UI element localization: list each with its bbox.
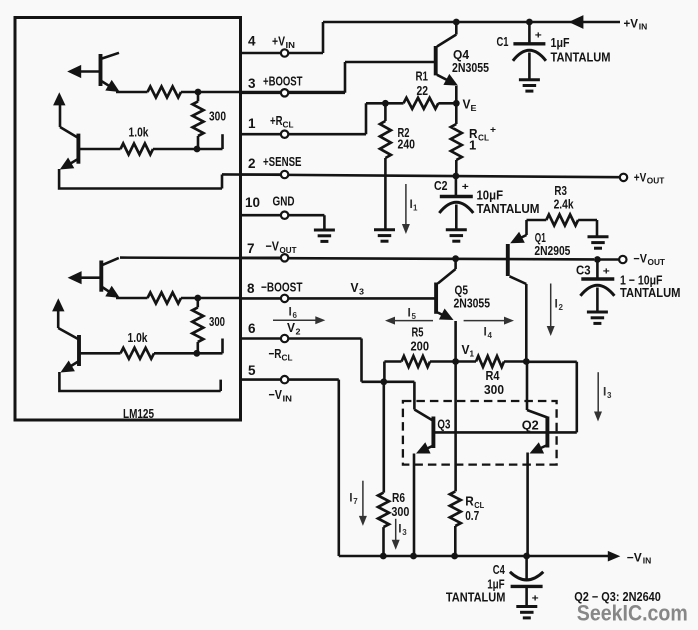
label Q2-Q3 2N2640: [574, 590, 661, 604]
resistor R4 300: [456, 356, 527, 367]
arrow T1 emitter tip: [67, 65, 81, 78]
label I_2: [555, 297, 564, 313]
svg-text:2N3055: 2N3055: [454, 295, 491, 310]
wire Q4 collector: [437, 22, 456, 47]
node dot rail R6: [380, 553, 387, 560]
current arrow I5: [385, 317, 433, 325]
label 1-10uF C3: [620, 273, 663, 288]
node dot C2: [453, 173, 460, 180]
wire Q5 collector: [438, 259, 456, 284]
svg-text:CL: CL: [282, 353, 293, 363]
svg-text:−V: −V: [627, 550, 642, 564]
svg-text:GND: GND: [273, 194, 295, 209]
wire emitter2 to resistor (bottom): [116, 297, 148, 300]
svg-text:3: 3: [248, 76, 256, 91]
node dot C1 on rail: [526, 19, 533, 26]
label 240: [398, 137, 416, 152]
svg-text:LM125: LM125: [123, 406, 154, 421]
transistor internal T1 base bar: [99, 54, 103, 86]
svg-text:1: 1: [469, 138, 476, 153]
wire T4 collector diagonal: [58, 310, 79, 340]
label +SENSE pin2: [263, 154, 302, 169]
label +BOOST pin3: [263, 74, 303, 89]
bottom -V_IN rail: [339, 555, 609, 558]
svg-text:SeekIC.com: SeekIC.com: [577, 601, 688, 626]
pin number 6: [248, 321, 256, 336]
svg-text:CL: CL: [478, 133, 489, 143]
capacitor C3 plus plate: [581, 277, 614, 280]
label R4: [486, 368, 501, 383]
wire C3 to ground: [596, 288, 599, 312]
label 22: [417, 83, 429, 98]
wire pin 10 stub: [241, 214, 281, 217]
svg-text:I: I: [398, 522, 401, 536]
wire Q4 emitter to VE: [455, 86, 458, 103]
label TANTALUM C3: [620, 285, 681, 300]
label R5: [412, 324, 424, 339]
svg-text:1: 1: [248, 116, 256, 131]
svg-text:3: 3: [402, 528, 407, 537]
wire Q3 collector path: [384, 382, 434, 421]
current arrow I1: [402, 184, 410, 234]
label I_3 right: [603, 385, 612, 401]
wire +SENSE to +V_OUT row: [222, 174, 619, 177]
label R_CL bottom: [465, 494, 484, 511]
svg-text:V: V: [351, 280, 359, 295]
label R_CL+: [469, 125, 496, 143]
ground C4: [516, 607, 537, 618]
svg-text:TANTALUM: TANTALUM: [620, 285, 681, 300]
label LM125: [123, 406, 154, 421]
svg-text:Q2: Q2: [522, 417, 539, 432]
svg-text:R1: R1: [416, 69, 429, 84]
svg-text:2N3055: 2N3055: [452, 60, 489, 75]
label I_6: [289, 305, 298, 321]
label +V_OUT terminal: [634, 170, 665, 185]
svg-text:2: 2: [296, 327, 301, 337]
svg-text:3: 3: [607, 391, 612, 400]
arrow Q3 emitter tip: [416, 442, 431, 453]
svg-text:+R: +R: [270, 113, 283, 128]
ground R3: [588, 237, 609, 248]
pin 3 circle: [281, 89, 288, 96]
svg-text:+V: +V: [272, 34, 285, 49]
pin number 3: [248, 76, 256, 91]
current arrow I7: [359, 481, 367, 526]
svg-text:I: I: [349, 491, 352, 505]
label 1uF C1: [551, 35, 570, 50]
LM125 IC body box: [15, 18, 241, 421]
wire Q1 emitter diagonal: [513, 220, 527, 242]
resistor 300 (top section): [193, 92, 204, 149]
label 1.0k bottom: [128, 330, 149, 345]
svg-text:+: +: [532, 594, 539, 605]
svg-text:+SENSE: +SENSE: [263, 154, 302, 169]
pin 4 circle: [281, 49, 288, 56]
wire Q3 emitter down to rail: [413, 454, 416, 557]
wire R4 node to mirror bases: [433, 362, 576, 433]
label -V_OUT pin7: [266, 239, 298, 256]
wire T2 collector diagonal: [60, 104, 78, 138]
label 300 bottom: [209, 314, 225, 329]
arrow Q5 emitter tip: [439, 309, 454, 321]
svg-text:3: 3: [359, 287, 364, 297]
svg-text:C4: C4: [493, 562, 506, 577]
svg-text:I: I: [555, 297, 558, 311]
resistor R3 2.4k: [527, 215, 598, 236]
wire zigzag to pin3 row: [181, 91, 345, 94]
transistor Q1 base bar: [506, 244, 510, 276]
watermark SeekIC.com: [577, 601, 688, 626]
capacitor C4 plus plate: [511, 585, 543, 588]
label C4 plus: [532, 594, 539, 605]
wire zigzag to pin8 row: [181, 297, 242, 300]
arrow T3 emitter2 tip: [105, 286, 120, 298]
pin number 10: [245, 195, 260, 210]
capacitor C2 curved plate: [439, 202, 473, 213]
pin 6 circle: [281, 335, 288, 342]
capacitor C2 plus plate: [440, 195, 473, 198]
wire T1 collector to pin4 row: [101, 53, 120, 59]
svg-text:+BOOST: +BOOST: [263, 74, 303, 89]
wire T2 emitter to sense row: [59, 169, 222, 189]
wire dot to pin6 riser: [221, 339, 224, 354]
svg-text:1.0k: 1.0k: [129, 125, 150, 140]
resistor 1.0k (bottom section): [79, 348, 223, 359]
svg-text:6: 6: [248, 321, 256, 336]
svg-text:22: 22: [417, 83, 429, 98]
svg-text:Q3: Q3: [437, 416, 450, 431]
label Q1: [535, 230, 546, 245]
svg-text:2.4k: 2.4k: [554, 197, 575, 212]
label +R_CL pin1: [270, 113, 294, 130]
wire pin8 -BOOST to Q5 base: [289, 297, 436, 300]
wire T3 emitter2 diagonal: [101, 287, 113, 295]
label C2: [434, 178, 448, 193]
pin 2 circle: [281, 171, 288, 178]
ground C2: [446, 230, 467, 241]
label V_2 node: [287, 320, 301, 337]
label R6: [392, 490, 405, 505]
wire C4 to ground: [525, 586, 528, 605]
node dot rail Q3: [410, 553, 417, 560]
svg-text:R5: R5: [412, 324, 424, 339]
terminal -V_OUT circle: [619, 256, 626, 263]
wire pin 3 stub: [241, 92, 281, 95]
label 1.0k top: [129, 125, 150, 140]
wire pin10 to ground: [289, 215, 325, 229]
arrow T4 emitter tip: [60, 361, 75, 373]
wire pin 8 stub: [241, 297, 281, 300]
svg-text:2N2905: 2N2905: [534, 243, 570, 258]
svg-text:300: 300: [209, 314, 225, 329]
label 2N3055 Q4: [452, 60, 489, 75]
node dot C3: [594, 256, 601, 263]
wire T2 emitter diagonal: [68, 159, 78, 165]
node V_1 dot: [452, 358, 459, 365]
resistor R1 22: [385, 98, 456, 109]
wire pin1 to R1 node: [289, 103, 386, 134]
svg-text:IN: IN: [643, 557, 652, 566]
label +V_IN terminal: [624, 16, 648, 31]
svg-text:I: I: [289, 305, 292, 319]
svg-text:+: +: [603, 266, 610, 277]
svg-text:1μF: 1μF: [551, 35, 570, 50]
label -V_IN terminal: [627, 550, 652, 565]
dashed box Q2-Q3 matched pair: [403, 401, 557, 465]
arrow T2 emitter tip: [60, 158, 75, 170]
label V_3: [351, 280, 365, 297]
label R3: [554, 183, 567, 198]
svg-text:1: 1: [470, 348, 475, 358]
label 1uF C4: [487, 577, 505, 592]
svg-text:300: 300: [484, 382, 504, 397]
svg-text:−R: −R: [269, 346, 282, 361]
transistor internal T4 base bar: [77, 335, 81, 366]
svg-text:+V: +V: [624, 16, 639, 30]
wire Q3 emitter diagonal: [424, 446, 433, 451]
node dot rail RCL: [451, 553, 458, 560]
svg-text:I: I: [484, 325, 487, 339]
ground R2: [374, 230, 395, 241]
transistor internal T3 base bar: [99, 261, 103, 292]
pin number 8: [247, 281, 255, 296]
wire Q5 emitter to V1: [454, 321, 457, 362]
resistor 300 (bottom section): [192, 298, 203, 353]
wire dot to -V_OUT terminal: [597, 258, 618, 261]
pin 7 circle: [281, 254, 288, 261]
pin 5 circle: [281, 376, 288, 383]
svg-text:OUT: OUT: [280, 245, 298, 255]
wire C1 from rail: [528, 22, 531, 43]
label I_4: [484, 325, 493, 341]
resistor 300 feed zigzag (top): [148, 87, 182, 98]
label 300 R4: [484, 382, 504, 397]
svg-text:OUT: OUT: [647, 176, 665, 185]
svg-text:C1: C1: [497, 34, 509, 49]
current arrow I4: [464, 317, 514, 325]
label GND pin10: [273, 194, 295, 209]
svg-text:2: 2: [248, 156, 256, 171]
pin number 5: [248, 363, 256, 378]
pin number 1: [248, 116, 256, 131]
resistor 300 feed zigzag (bottom): [148, 293, 182, 304]
svg-text:1: 1: [413, 203, 418, 212]
capacitor C1 curved plate: [513, 50, 546, 61]
node dot R1 left: [382, 100, 389, 107]
label C3: [576, 262, 591, 277]
svg-text:240: 240: [398, 137, 416, 152]
svg-text:10: 10: [245, 195, 260, 210]
transistor Q3 base bar: [431, 417, 435, 449]
label Q4: [453, 47, 470, 62]
wire Q4 emitter diagonal: [437, 75, 450, 82]
label Q3: [437, 416, 450, 431]
label I_1: [410, 197, 419, 213]
wire pin7 -V_OUT row: [120, 258, 594, 260]
current arrow I3 right: [594, 372, 602, 421]
label 2N2905 Q1: [534, 243, 570, 258]
svg-text:IN: IN: [283, 394, 293, 404]
node dot R5/RCL junction: [380, 378, 387, 385]
label 10uF C2: [477, 188, 504, 203]
label -V_OUT terminal: [633, 251, 665, 267]
svg-text:300: 300: [209, 109, 226, 124]
node dot 300 top (bottom section): [194, 295, 201, 302]
svg-text:300: 300: [391, 504, 409, 519]
svg-text:C2: C2: [434, 178, 448, 193]
label 1 RCL: [469, 138, 476, 153]
wire pin4 to top rail: [289, 22, 323, 53]
svg-text:0.7: 0.7: [465, 508, 479, 523]
label TANTALUM C1: [551, 50, 611, 65]
wire Q1 collector: [510, 276, 527, 361]
svg-text:TANTALUM: TANTALUM: [477, 201, 540, 216]
label V_E: [463, 96, 477, 113]
capacitor C4 curved plate: [510, 572, 543, 580]
node dot 300 bottom (bottom section): [193, 350, 200, 357]
terminal +V_OUT circle: [620, 174, 627, 181]
label TANTALUM C2: [477, 201, 540, 216]
wire Q5 emitter diagonal: [438, 313, 449, 319]
wire T1 emitter2 diagonal: [101, 81, 114, 89]
svg-text:4: 4: [488, 331, 493, 340]
node dot 300 bottom: [194, 146, 201, 153]
pin number 4: [248, 33, 256, 48]
svg-text:+: +: [490, 125, 496, 135]
svg-text:7: 7: [353, 497, 358, 506]
svg-text:+: +: [462, 182, 469, 193]
arrow Q4 emitter tip: [443, 74, 458, 86]
transistor Q5 base bar: [434, 283, 438, 314]
node dot Q5 collector: [452, 255, 459, 262]
label -V_IN pin5: [269, 387, 293, 404]
label C4: [493, 562, 506, 577]
svg-text:+V: +V: [634, 170, 647, 184]
svg-text:R4: R4: [486, 368, 501, 383]
svg-text:−V: −V: [269, 387, 283, 402]
resistor R5 200: [384, 356, 455, 382]
node dot R4 right: [523, 358, 530, 365]
pin number 7: [247, 241, 255, 256]
label 0.7: [465, 508, 479, 523]
label R2: [398, 125, 410, 140]
transistor Q4 base bar: [434, 46, 438, 75]
arrow T3 emitter tip: [68, 271, 82, 284]
wire pin6 to R5 node: [289, 339, 384, 382]
svg-text:R6: R6: [392, 490, 405, 505]
svg-text:+: +: [535, 31, 542, 42]
pin 8 circle: [281, 295, 288, 302]
label TANTALUM C4: [446, 590, 506, 605]
wire Q2 emitter down to rail: [526, 453, 529, 557]
label V_1: [462, 342, 475, 359]
arrow +V_IN direction: [569, 15, 584, 29]
wire pin 4 stub: [241, 52, 281, 55]
wire C1 to ground: [528, 53, 531, 80]
svg-text:5: 5: [412, 312, 417, 321]
wire dot to pin1 riser: [221, 134, 224, 149]
label I_3 left: [398, 522, 407, 538]
arrow Q2 emitter tip: [530, 442, 545, 453]
label R1: [416, 69, 429, 84]
label 300 top: [209, 109, 226, 124]
svg-text:2: 2: [559, 303, 564, 312]
label C1: [497, 34, 509, 49]
node dot Q4 collector on rail: [453, 19, 460, 26]
pin 10 circle: [281, 212, 288, 219]
svg-text:IN: IN: [286, 40, 296, 50]
label 2N3055 Q5: [454, 295, 491, 310]
wire Q2 collector: [527, 362, 547, 418]
capacitor C1 plus plate: [513, 42, 545, 45]
arrow Q1 emitter tip: [510, 232, 525, 244]
wire pin3 to Q4 base: [289, 62, 436, 93]
current arrow I6: [273, 316, 325, 324]
svg-text:−BOOST: −BOOST: [261, 280, 303, 295]
wire C2 to ground: [455, 205, 458, 230]
label Q2: [522, 417, 539, 432]
svg-text:V: V: [287, 320, 295, 335]
svg-text:I: I: [408, 305, 411, 319]
resistor RCL+ 1: [451, 103, 462, 175]
wire C4 from rail: [525, 556, 528, 579]
wire pin 1 stub: [241, 133, 281, 136]
wire emitter2 to resistor: [116, 91, 148, 94]
ground C1: [519, 80, 540, 91]
svg-text:7: 7: [247, 241, 255, 256]
wire C3 from node: [596, 260, 599, 278]
svg-text:−V: −V: [633, 251, 647, 265]
wire T4 emitter diagonal: [69, 361, 80, 368]
arrow T4 collector up: [52, 298, 64, 311]
wire T1 emitter left: [79, 70, 101, 73]
current arrow I2: [547, 284, 555, 337]
label C1 plus: [535, 31, 542, 42]
svg-text:IN: IN: [639, 23, 648, 32]
label 2.4k: [554, 197, 575, 212]
ground GND pin: [314, 230, 335, 241]
svg-text:I: I: [603, 385, 606, 399]
wire pin 5 stub: [241, 378, 281, 381]
resistor R6 300: [378, 382, 389, 556]
svg-text:OUT: OUT: [648, 258, 666, 267]
svg-text:TANTALUM: TANTALUM: [446, 590, 506, 605]
svg-text:4: 4: [248, 33, 256, 48]
label 300 R6: [391, 504, 409, 519]
svg-text:5: 5: [248, 363, 256, 378]
arrow T1 emitter2 tip: [105, 80, 120, 92]
arrow -V_IN direction: [608, 551, 621, 562]
wire Q2 emitter diagonal: [538, 445, 548, 450]
wire C2 from node: [455, 176, 458, 196]
wire pin 6 stub: [241, 337, 281, 340]
wire T3 emitter left: [80, 276, 102, 279]
current arrow I3 left: [392, 519, 400, 550]
node dot 300 top: [195, 89, 202, 96]
label 200: [411, 338, 430, 353]
capacitor C3 curved plate: [580, 285, 614, 296]
label -R_CL pin6: [269, 346, 293, 363]
svg-text:CL: CL: [283, 120, 294, 130]
resistor RCL- 0.7: [450, 362, 461, 557]
svg-text:−V: −V: [266, 239, 280, 254]
wire T3 collector to pin7 row: [101, 258, 119, 266]
transistor Q2 base bar: [545, 417, 549, 448]
wire pin 7 stub: [241, 256, 281, 259]
svg-text:R: R: [465, 494, 474, 509]
arrow T2 collector up: [53, 92, 65, 105]
